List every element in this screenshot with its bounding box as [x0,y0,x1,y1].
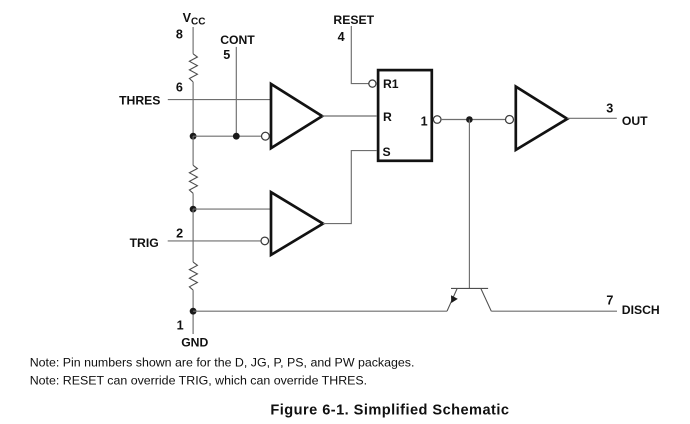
wire node TRIG to resistor RC [192,209,194,262]
svg-text:OUT: OUT [622,114,648,128]
wire RB to node TRIG [192,193,194,209]
svg-text:1: 1 [177,318,184,332]
wire node THRES row to U1 inverting bubble [193,135,261,137]
transistor Q1 emitter arrow [451,295,458,303]
svg-text:GND: GND [181,335,208,349]
CONT junction dot [233,133,240,140]
svg-text:R: R [383,110,392,124]
wire node TRIG to comparator U2 noninverting input [193,208,271,210]
node GND junction dot [190,308,197,315]
svg-text:5: 5 [223,48,230,62]
comparator U2 (trigger comparator) [271,192,323,255]
node THRES junction dot [190,133,197,140]
wire RESET to latch R1 bubble [351,26,369,84]
transistor Q1 emitter [447,289,457,311]
resistor RA (Vcc to THRES node) [189,54,197,82]
resistor RC (TRIG node to GND) [189,262,197,290]
svg-text:4: 4 [338,30,345,44]
wire CONT down to node [235,47,237,136]
svg-text:3: 3 [606,102,613,116]
latch U3 body [378,70,432,161]
node base junction dot [466,116,473,123]
svg-text:Note: RESET can override TRIG,: Note: RESET can override TRIG, which can… [30,373,367,387]
transistor Q1 collector [481,289,491,311]
svg-text:DISCH: DISCH [622,303,660,317]
svg-text:S: S [383,145,391,159]
node TRIG junction dot [190,206,197,213]
svg-text:TRIG: TRIG [130,236,159,250]
wire TRIG pin to comparator U2 inverting bubble [168,240,261,242]
wire node THRES to resistor RB [192,136,194,165]
svg-text:CONT: CONT [220,33,255,47]
latch output bubble [433,116,441,124]
wire base node down to transistor Q1 base [468,120,470,289]
svg-text:Note: Pin numbers shown are fo: Note: Pin numbers shown are for the D, J… [30,356,415,370]
wire latch output to buffer U4 [441,119,505,121]
svg-text:8: 8 [176,28,183,42]
transistor Q1 base bar [451,287,488,289]
wire GND node to Q1 emitter [193,310,447,312]
svg-text:VCC: VCC [183,11,206,27]
svg-text:1: 1 [421,115,428,129]
wire U1 output to latch R input [322,115,376,117]
buffer U4 input bubble [506,116,514,124]
svg-text:2: 2 [176,227,183,241]
svg-text:R1: R1 [383,77,399,91]
comparator U1 inverting input bubble [262,132,270,140]
comparator U1 (threshold comparator) [271,84,322,148]
comparator U2 inverting input bubble [261,237,269,245]
wire U2 output to latch S input [323,151,377,224]
wire RC to GND node [192,290,194,334]
wire THRES pin to comparator U1 noninverting input [168,99,271,101]
wire Q1 collector to DISCH pin [491,310,617,312]
latch R1 input bubble [369,80,376,87]
buffer U4 (output inverting buffer) [516,87,568,150]
wire Vcc down to resistor RA [192,27,194,54]
resistor RB (THRES node to TRIG node) [189,165,197,193]
svg-text:Figure 6-1. Simplified Schemat: Figure 6-1. Simplified Schematic [270,402,509,418]
svg-text:RESET: RESET [333,13,374,27]
svg-text:7: 7 [606,293,613,307]
wire U4 output to OUT pin [567,117,617,119]
svg-text:6: 6 [176,81,183,95]
wire RA to node THRES [192,82,194,136]
svg-text:THRES: THRES [119,93,160,107]
